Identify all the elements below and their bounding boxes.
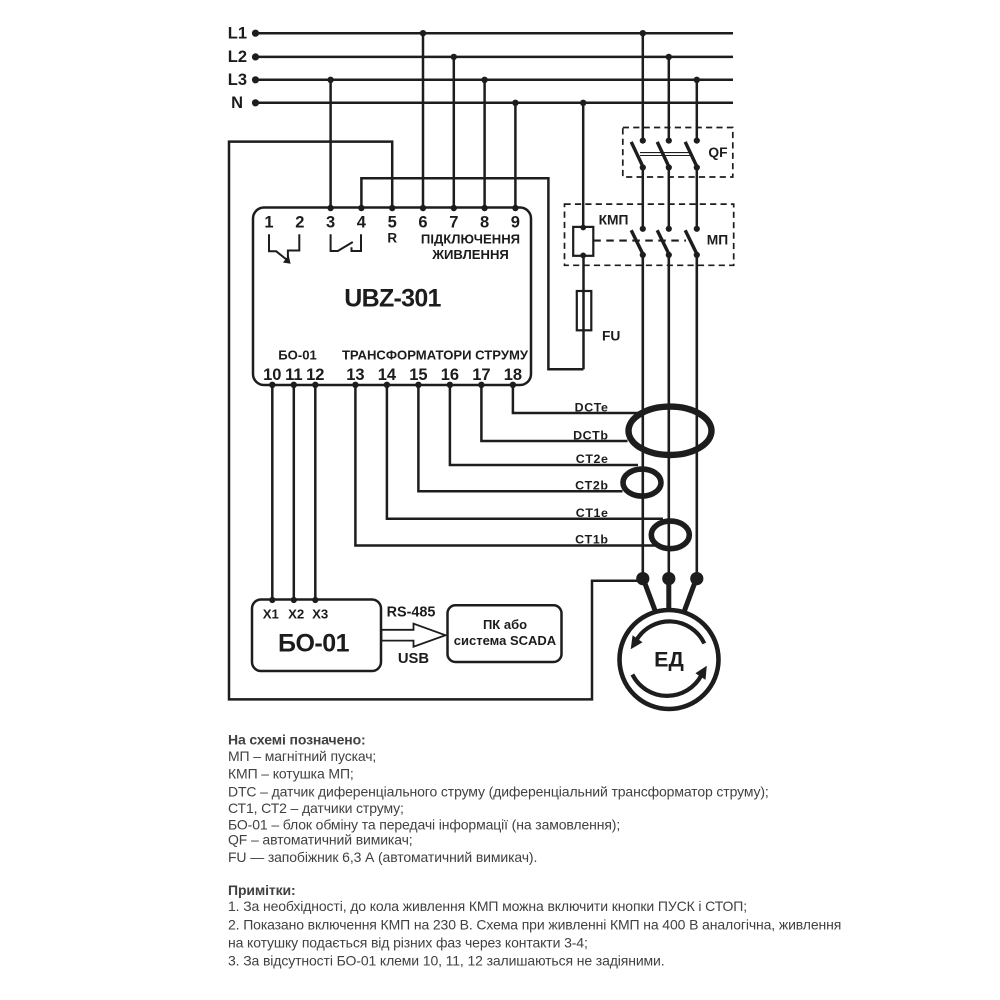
wire L3 rail [255, 79, 733, 82]
svg-text:3: 3 [326, 214, 335, 232]
wire pin 18 DCTe [513, 385, 639, 413]
motor rotation arrowhead top-left [631, 635, 643, 649]
svg-text:ЕД: ЕД [654, 648, 684, 672]
motor ED body circle [620, 610, 719, 709]
svg-text:USB: USB [398, 651, 430, 667]
node KMP coil top [580, 225, 586, 231]
svg-text:12: 12 [306, 366, 324, 384]
wire motor stub C [684, 583, 695, 613]
svg-text:DCTe: DCTe [575, 401, 609, 415]
node pin 14 terminal [384, 382, 390, 388]
differential current transformer DCT ring [629, 407, 712, 455]
node pin 13 terminal [352, 382, 358, 388]
node pin 15 terminal [415, 382, 421, 388]
contactor MP dashed enclosure [565, 204, 734, 265]
wire phase A drop L1 to QF [642, 33, 645, 140]
MP pole A top contact [640, 226, 646, 232]
svg-text:3. За відсутності БО-01 клеми: 3. За відсутності БО-01 клеми 10, 11, 12… [228, 952, 665, 968]
wire motor stub B [666, 583, 671, 611]
svg-text:2: 2 [295, 214, 304, 232]
wire phase B drop L2 to QF [668, 57, 671, 141]
svg-text:UBZ-301: UBZ-301 [344, 285, 441, 313]
svg-text:МП – магнітний пускач;: МП – магнітний пускач; [228, 748, 376, 764]
node pin 16 terminal [447, 382, 453, 388]
coil KMP [573, 227, 593, 256]
svg-text:16: 16 [441, 366, 459, 384]
svg-text:6: 6 [418, 214, 427, 232]
svg-text:9: 9 [511, 214, 520, 232]
svg-text:БО-01 – блок обміну та передач: БО-01 – блок обміну та передачі інформац… [228, 817, 620, 833]
computer SCADA box [448, 605, 562, 662]
node pin 3 terminal [327, 205, 333, 211]
node pin 18 terminal [510, 382, 516, 388]
node L2 source terminal [252, 53, 259, 60]
node pin 9 terminal [512, 205, 518, 211]
wire pin 5 R loop to motor terminal [229, 142, 643, 700]
wire riser N to KMP coil [582, 103, 585, 227]
QF pole A bottom contact [640, 164, 646, 170]
svg-text:RS-485: RS-485 [387, 605, 436, 621]
wire pin 11 to X2 [293, 385, 296, 600]
wire L1 rail [255, 32, 733, 35]
svg-text:13: 13 [346, 366, 364, 384]
module BO-01 body [252, 600, 381, 672]
svg-text:7: 7 [449, 214, 458, 232]
relay UBZ-301 body [253, 208, 531, 386]
wire N rail [255, 102, 733, 105]
svg-text:5: 5 [388, 214, 397, 232]
svg-text:DCTb: DCTb [573, 429, 608, 443]
node X3 terminal [312, 597, 318, 603]
MP pole C blade [685, 230, 697, 255]
MP pole B bottom contact [666, 252, 672, 258]
svg-text:ПІДКЛЮЧЕННЯ: ПІДКЛЮЧЕННЯ [421, 232, 520, 247]
svg-text:2. Показано включення КМП на 2: 2. Показано включення КМП на 230 В. Схем… [228, 917, 841, 933]
QF pole B bottom contact [666, 164, 672, 170]
QF pole C bottom contact [694, 164, 700, 170]
fuse FU body [577, 291, 592, 330]
MP pole B top contact [666, 226, 672, 232]
node motor terminal B [662, 572, 675, 585]
svg-text:ТРАНСФОРМАТОРИ СТРУМУ: ТРАНСФОРМАТОРИ СТРУМУ [342, 347, 529, 362]
relay contact 1-2 blade arrowhead [283, 255, 291, 263]
MP pole A bottom contact [640, 252, 646, 258]
node motor terminal A [636, 572, 649, 585]
svg-text:4: 4 [357, 214, 367, 232]
wire riser L3 to pin 3 [329, 80, 332, 208]
wire phase B QF to MP [668, 168, 671, 229]
svg-text:БО-01: БО-01 [278, 630, 350, 658]
motor rotation arc top [636, 621, 704, 643]
svg-text:L3: L3 [228, 71, 247, 89]
wire phase A MP to motor [641, 255, 644, 579]
wire phase C drop L3 to QF [696, 80, 699, 141]
node pin 17 terminal [478, 382, 484, 388]
QF pole A top contact [640, 138, 646, 144]
wire phase C MP to motor [695, 255, 698, 579]
svg-text:FU — запобіжник 6,3 А (автомат: FU — запобіжник 6,3 А (автоматичний вими… [228, 849, 537, 865]
node L1 source terminal [252, 30, 259, 37]
wire fuse to KMP coil bottom [582, 256, 585, 369]
node X2 terminal [291, 597, 297, 603]
svg-text:1. За необхідності, до кола жи: 1. За необхідності, до кола живлення КМП… [228, 898, 747, 914]
svg-text:КМП – котушка МП;: КМП – котушка МП; [228, 765, 354, 781]
svg-text:CT2b: CT2b [575, 479, 608, 493]
svg-text:ЖИВЛЕННЯ: ЖИВЛЕННЯ [431, 247, 509, 262]
wire pin 4 to fuse bottom [361, 178, 583, 369]
svg-text:14: 14 [378, 366, 397, 384]
wire pin 12 to X3 [314, 385, 317, 600]
QF mechanical tie double line [640, 153, 690, 156]
svg-text:17: 17 [472, 366, 490, 384]
QF pole C blade [685, 142, 697, 168]
node X1 terminal [269, 597, 275, 603]
motor rotation arc bottom [632, 675, 701, 696]
node pin 6 terminal [420, 205, 426, 211]
wire pin 13 CT1b [355, 385, 656, 546]
node junction L3 / QF phase C [694, 77, 700, 83]
wire pin 16 CT2e [450, 385, 638, 465]
node junction L1 / pin6 riser [420, 30, 426, 36]
svg-text:1: 1 [264, 214, 273, 232]
node junction N / KMP riser [580, 100, 586, 106]
wire phase A QF to MP [642, 168, 645, 229]
svg-text:CT2e: CT2e [576, 452, 609, 466]
wire pin 15 CT2b [418, 385, 622, 492]
circuit breaker QF dashed enclosure [623, 128, 733, 178]
svg-text:N: N [231, 94, 243, 112]
node KMP coil bottom [580, 253, 586, 259]
wire dashed actuator link KMP to MP contacts [593, 240, 686, 242]
svg-text:18: 18 [504, 366, 522, 384]
node pin 4 terminal [358, 205, 364, 211]
node junction N / pin9 riser [512, 100, 518, 106]
wire riser N to pin 9 [514, 103, 517, 208]
svg-text:8: 8 [480, 214, 489, 232]
svg-text:На схемі позначено:: На схемі позначено: [228, 732, 366, 748]
svg-text:CT1e: CT1e [576, 506, 609, 520]
node N source terminal [252, 99, 259, 106]
node junction L2 / pin7 riser [451, 54, 457, 60]
interface arrow BO-01 to PC [382, 624, 446, 647]
svg-text:11: 11 [285, 366, 302, 384]
svg-text:X1: X1 [263, 607, 279, 622]
svg-text:МП: МП [707, 233, 728, 248]
svg-text:QF: QF [708, 145, 727, 160]
svg-text:КМП: КМП [599, 213, 629, 228]
node junction L3 / pin3 riser [327, 77, 333, 83]
QF pole C top contact [694, 138, 700, 144]
wire pin 14 CT1e [387, 385, 663, 519]
MP pole C bottom contact [694, 252, 700, 258]
relay contact 1-2 [269, 234, 299, 261]
wire phase C QF to MP [696, 168, 699, 229]
wire pin 17 DCTb [481, 385, 627, 441]
svg-text:CT1b: CT1b [575, 533, 608, 547]
svg-text:QF – автоматичний вимикач;: QF – автоматичний вимикач; [228, 832, 413, 848]
node pin 10 terminal [269, 382, 275, 388]
svg-text:БО-01: БО-01 [278, 347, 317, 362]
node junction L3 / pin8 riser [481, 77, 487, 83]
MP pole B blade [657, 230, 669, 255]
motor rotation arrowhead bottom-right [695, 666, 706, 680]
node L3 source terminal [252, 76, 259, 83]
node pin 8 terminal [481, 205, 487, 211]
wire riser L1 to pin 6 [422, 33, 425, 208]
wire riser L2 to pin 7 [453, 57, 456, 208]
svg-text:X2: X2 [288, 607, 304, 622]
svg-text:FU: FU [602, 329, 620, 344]
QF pole A blade [631, 142, 643, 168]
svg-text:ПК або: ПК або [483, 617, 527, 632]
wire phase B MP to motor [667, 255, 670, 579]
svg-text:система SCADA: система SCADA [454, 633, 557, 648]
svg-text:15: 15 [409, 366, 427, 384]
svg-text:DTC – датчик диференціального: DTC – датчик диференціального струму (ди… [228, 783, 769, 799]
node junction L2 / QF phase B [666, 54, 672, 60]
relay contact 3-4 [331, 234, 361, 251]
node motor terminal C [690, 572, 703, 585]
svg-text:Примітки:: Примітки: [228, 882, 296, 898]
node pin 12 terminal [312, 382, 318, 388]
svg-text:X3: X3 [312, 607, 328, 622]
svg-text:L1: L1 [228, 25, 247, 43]
node pin 5 terminal [389, 205, 395, 211]
svg-text:R: R [387, 230, 397, 245]
node pin 11 terminal [291, 382, 297, 388]
QF pole B top contact [666, 138, 672, 144]
wire motor stub A [645, 583, 656, 613]
svg-text:на котушку подається від різни: на котушку подається від різних фаз чере… [228, 935, 588, 951]
QF pole B blade [657, 142, 669, 168]
wire pin 10 to X1 [271, 385, 274, 600]
svg-text:L2: L2 [228, 48, 247, 66]
wire L2 rail [255, 56, 733, 59]
node junction L1 / QF phase A [640, 30, 646, 36]
svg-text:10: 10 [263, 366, 281, 384]
MP pole C top contact [694, 226, 700, 232]
node pin 7 terminal [451, 205, 457, 211]
current transformer CT1 ring [651, 521, 689, 549]
MP pole A blade [631, 230, 643, 255]
wire riser L3 to pin 8 [483, 80, 486, 208]
current transformer CT2 ring [623, 469, 661, 496]
svg-text:СТ1, СТ2 – датчики струму;: СТ1, СТ2 – датчики струму; [228, 800, 404, 816]
